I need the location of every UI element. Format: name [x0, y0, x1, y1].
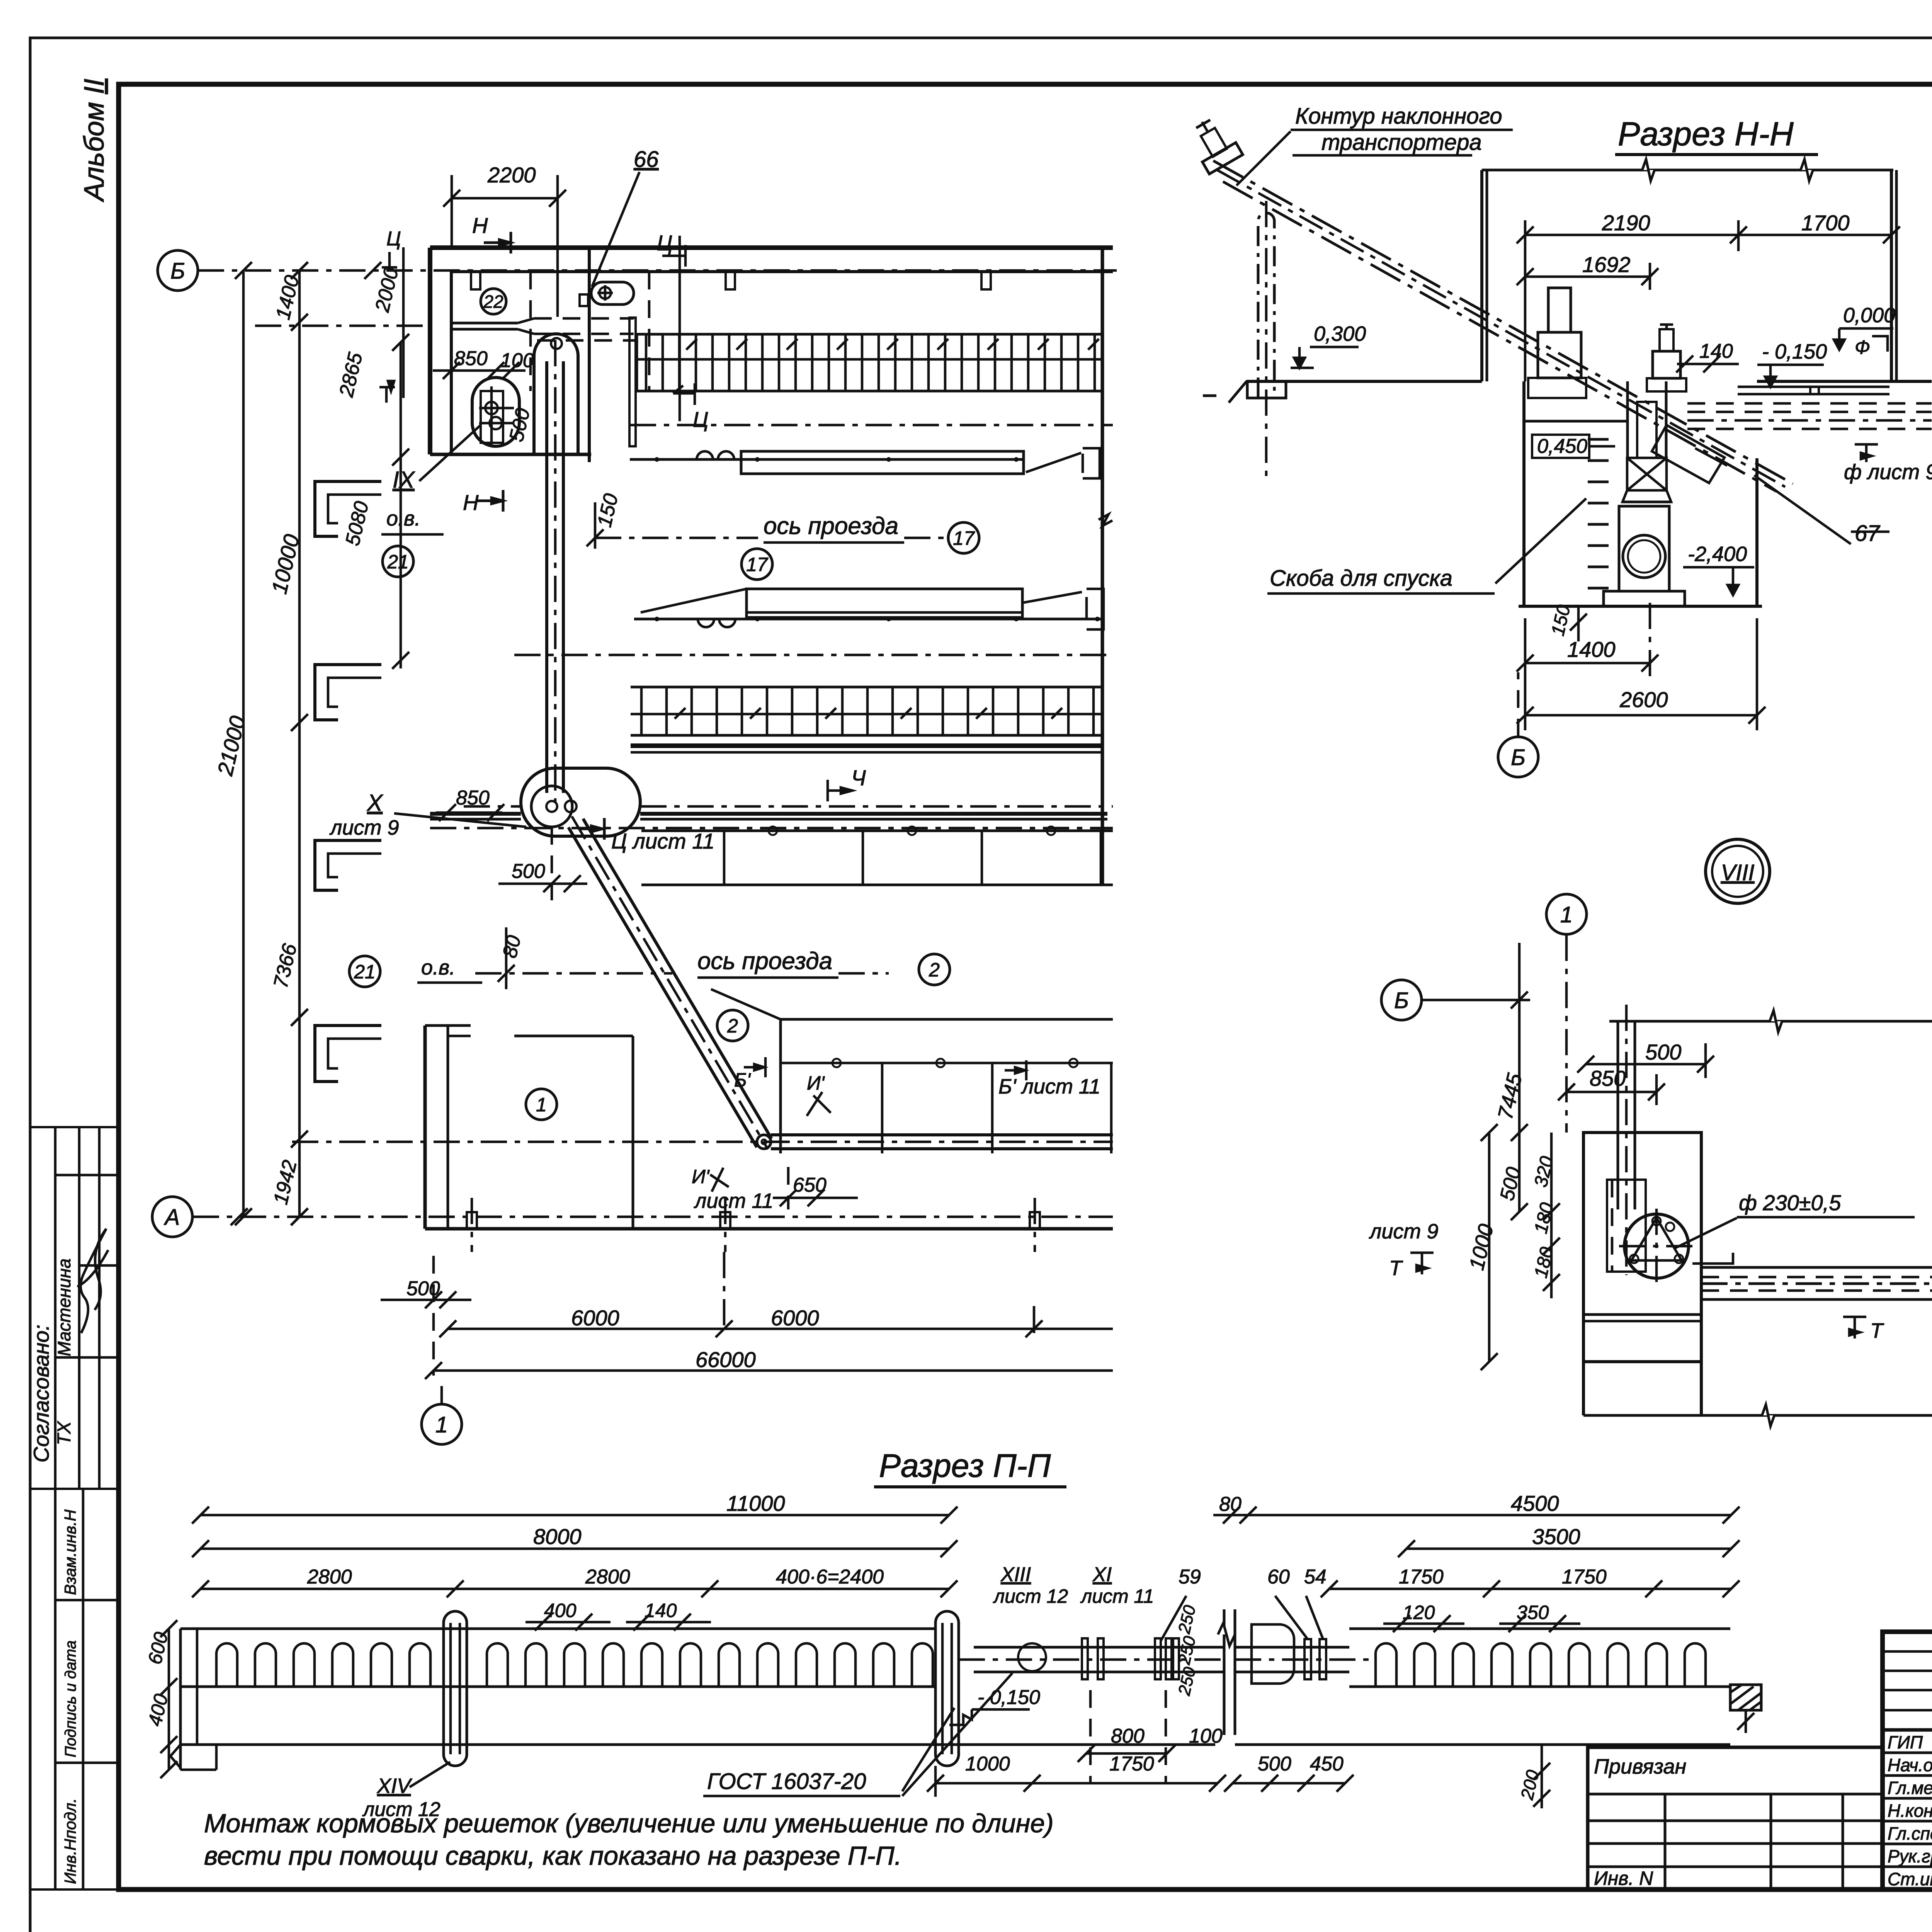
trough A right bracket [1083, 448, 1100, 478]
svg-text:Б: Б [1394, 988, 1409, 1013]
svg-text:67: 67 [1855, 521, 1881, 546]
left dimension chains [242, 270, 245, 1217]
machine room walls [428, 248, 432, 454]
svg-text:Ц: Ц [386, 228, 401, 250]
approval stamp block upper [30, 1127, 119, 1489]
svg-text:И': И' [807, 1072, 825, 1094]
Г brackets on left [315, 481, 381, 536]
svg-text:XI: XI [1092, 1563, 1112, 1586]
svg-text:Контур наклонного: Контур наклонного [1295, 104, 1502, 129]
svg-text:Мастенина: Мастенина [54, 1259, 74, 1356]
svg-text:о.в.: о.в. [386, 507, 420, 530]
axis Б circle VIII [1381, 980, 1422, 1020]
feeding axis 2 dash-dot [514, 654, 1113, 656]
svg-text:140: 140 [645, 1600, 677, 1621]
title block frame [1883, 1632, 1932, 1889]
svg-text:Ц: Ц [693, 407, 709, 432]
ось проезда 2 [475, 972, 672, 975]
svg-text:Б: Б [1511, 745, 1526, 770]
svg-text:450: 450 [1310, 1753, 1344, 1775]
column posts on bottom edge [467, 1212, 477, 1229]
trough A front line with bumps [630, 458, 1024, 461]
svg-text:1: 1 [1560, 902, 1573, 927]
svg-text:17: 17 [953, 527, 975, 549]
feed channel dashed band [1687, 402, 1932, 405]
axis 1 circle VIII [1546, 894, 1587, 934]
plan: right cut edge [1101, 248, 1104, 885]
trough B right bracket [1087, 589, 1104, 629]
drive station capsule [521, 768, 640, 836]
D fitting [1252, 1624, 1294, 1684]
svg-text:400·6=2400: 400·6=2400 [776, 1566, 884, 1588]
dashed verticals mid dims [1089, 1690, 1092, 1783]
inclined conveyor lines dash-dot contour [1223, 182, 1777, 492]
svg-text:Гл.мех.: Гл.мех. [1888, 1778, 1932, 1798]
svg-text:850: 850 [454, 347, 488, 370]
discharge chute [1652, 425, 1725, 483]
svg-text:IX: IX [393, 467, 415, 493]
wall top line with break [1609, 1020, 1932, 1023]
svg-text:6000: 6000 [771, 1306, 819, 1330]
support post capsule dash-dot [1258, 213, 1274, 398]
drive pulley circles [531, 786, 572, 827]
svg-text:500: 500 [1258, 1753, 1291, 1775]
svg-text:А: А [164, 1205, 180, 1230]
svg-text:1692: 1692 [1582, 252, 1631, 277]
svg-text:Ц лист 11: Ц лист 11 [611, 829, 714, 853]
svg-text:вести при помощи сварки, как п: вести при помощи сварки, как показано на… [204, 1841, 902, 1871]
svg-text:0,300: 0,300 [1314, 322, 1366, 345]
capsule XIV on band [444, 1611, 467, 1766]
grate band B [631, 686, 1102, 689]
svg-text:транспортера: транспортера [1321, 130, 1482, 155]
svg-text:лист 11: лист 11 [1080, 1585, 1154, 1607]
svg-text:ось проезда: ось проезда [697, 948, 832, 975]
right flanges [1304, 1639, 1311, 1679]
inclined conveyor channel vertical run [545, 361, 548, 793]
svg-text:Б': Б' [734, 1069, 751, 1091]
svg-text:500: 500 [1645, 1040, 1681, 1064]
inclined conveyor diagonal run [565, 812, 775, 1154]
axis circle 1 bottom [422, 1404, 462, 1444]
svg-text:1750: 1750 [1109, 1753, 1154, 1775]
elevator boot in pit [1637, 402, 1656, 458]
svg-text:850: 850 [456, 787, 490, 809]
floor right of pit [1757, 380, 1932, 383]
circle 1 room [526, 1089, 557, 1120]
conveyor head capsule [534, 334, 578, 456]
flange circle with bolts [1624, 1214, 1689, 1278]
staff names [1888, 1732, 1932, 1889]
svg-text:2800: 2800 [585, 1566, 630, 1588]
svg-text:о.в.: о.в. [421, 956, 455, 979]
svg-text:Н.контр.: Н.контр. [1888, 1801, 1932, 1821]
svg-text:ГИП: ГИП [1888, 1732, 1923, 1752]
svg-text:XIV: XIV [376, 1774, 413, 1798]
partition wall end rect [629, 318, 636, 446]
band A left edge [636, 334, 638, 391]
recessed floor -0,150 [1738, 386, 1889, 388]
capsule XIII on band [935, 1611, 959, 1766]
plan: building top wall [430, 245, 1113, 250]
motor on floor [1538, 332, 1581, 378]
grate band A top line [637, 333, 1104, 336]
Ц cut line left through machine room [402, 247, 405, 398]
svg-text:лист 9: лист 9 [329, 816, 399, 839]
svg-text:1000: 1000 [965, 1753, 1010, 1775]
circle 22 [481, 289, 506, 314]
grate band A bottom line [637, 390, 1104, 393]
svg-text:Ц: Ц [657, 231, 673, 255]
svg-text:Инв. N: Инв. N [1594, 1867, 1653, 1889]
svg-text:2600: 2600 [1619, 687, 1668, 712]
svg-text:2: 2 [929, 959, 940, 981]
svg-text:XIII: XIII [1000, 1563, 1031, 1586]
circle 2 a [919, 954, 950, 985]
feed pipe line at 843 [255, 325, 430, 327]
wall rectangle VIII [1583, 1133, 1701, 1362]
svg-text:лист 11: лист 11 [694, 1189, 774, 1213]
ось проезда 1 [595, 537, 758, 539]
attachment box Привязан [1588, 1747, 1883, 1889]
svg-text:Скоба для спуска: Скоба для спуска [1270, 566, 1452, 591]
svg-text:Ч: Ч [851, 765, 866, 790]
svg-text:21: 21 [354, 961, 376, 983]
axis through station [464, 805, 521, 808]
rooms lower left walls [423, 1026, 427, 1229]
circle 17 b [742, 549, 772, 580]
svg-text:ось проезда: ось проезда [764, 513, 898, 539]
svg-text:Подпись и дата: Подпись и дата [62, 1640, 79, 1757]
circle 2 b [717, 1010, 748, 1041]
band A inner line [637, 358, 1104, 361]
approval stamp block lower [30, 1489, 119, 1889]
svg-text:21: 21 [387, 551, 409, 573]
hatched stub right end [1730, 1685, 1761, 1710]
svg-text:Н: Н [463, 490, 479, 515]
circle 21 lower [349, 956, 380, 987]
axis Б circle HH [1498, 737, 1538, 777]
svg-text:- 0,150: - 0,150 [1762, 340, 1827, 363]
signature [77, 1229, 108, 1333]
svg-text:1: 1 [536, 1094, 547, 1116]
svg-text:800: 800 [1111, 1725, 1145, 1747]
svg-text:80: 80 [1219, 1493, 1242, 1515]
svg-text:1750: 1750 [1399, 1566, 1444, 1588]
svg-text:22: 22 [483, 292, 503, 312]
ladder rungs [1588, 438, 1609, 441]
trough row D [781, 1018, 1113, 1021]
svg-text:лист 12: лист 12 [993, 1585, 1068, 1607]
pit right wall [1755, 458, 1759, 606]
right joint section [1235, 1646, 1349, 1649]
svg-text:54: 54 [1304, 1566, 1327, 1588]
svg-text:Т: Т [1870, 1319, 1884, 1342]
oval unit top [591, 282, 634, 304]
svg-text:VIII: VIII [1721, 860, 1754, 885]
svg-text:1750: 1750 [1562, 1566, 1607, 1588]
svg-text:Нач.отд.: Нач.отд. [1888, 1755, 1932, 1775]
circle 21 upper [383, 546, 413, 577]
svg-text:Инв.Нподл.: Инв.Нподл. [61, 1798, 79, 1884]
0,450 boxed level [1532, 435, 1589, 458]
svg-text:Б: Б [170, 259, 185, 284]
floor line left [1247, 380, 1482, 383]
svg-text:2190: 2190 [1602, 211, 1650, 235]
axis Б circle [158, 250, 198, 291]
Ц лист 11 mark [580, 818, 604, 840]
svg-text:ф лист 9: ф лист 9 [1844, 460, 1932, 484]
svg-text:X: X [366, 790, 383, 816]
svg-text:-2,400: -2,400 [1688, 543, 1747, 566]
svg-text:Гл.спец.: Гл.спец. [1888, 1823, 1932, 1844]
svg-text:1700: 1700 [1801, 211, 1850, 235]
stray mark right of cut [1203, 395, 1216, 397]
wall bottom line VIII [1583, 1414, 1932, 1417]
grate band lines PP [180, 1628, 935, 1630]
gap walls 80 [1223, 1609, 1226, 1735]
svg-text:1: 1 [435, 1412, 448, 1437]
building bottom edge [425, 1227, 1113, 1231]
flange pairs on joint [1082, 1638, 1088, 1679]
svg-text:500: 500 [406, 1277, 440, 1300]
pit bottom [1519, 605, 1762, 608]
svg-text:Ст.инж.: Ст.инж. [1888, 1869, 1932, 1889]
svg-text:Ф: Ф [1855, 337, 1870, 358]
svg-text:Монтаж кормовых решеток (увели: Монтаж кормовых решеток (увеличение или … [204, 1809, 1054, 1838]
dash line 881 [537, 339, 637, 342]
elbow circle [757, 1135, 771, 1149]
svg-text:120: 120 [1403, 1602, 1435, 1623]
svg-text:Привязан: Привязан [1594, 1755, 1686, 1778]
svg-text:850: 850 [1590, 1066, 1626, 1090]
svg-text:Согласовано:: Согласовано: [29, 1325, 53, 1463]
svg-text:Н: Н [472, 213, 488, 238]
mark Б' left [744, 1057, 765, 1077]
grate band A slashes [686, 339, 697, 350]
trough A rectangle [741, 451, 1024, 474]
small step right of circle [1692, 1253, 1733, 1264]
svg-text:2800: 2800 [307, 1566, 352, 1588]
channel to right [1701, 1266, 1932, 1269]
grate posts right section [1376, 1643, 1396, 1687]
svg-text:500: 500 [512, 860, 545, 883]
band B inner line [631, 713, 1102, 716]
svg-text:Б' лист 11: Б' лист 11 [998, 1075, 1100, 1098]
svg-text:Т: Т [1389, 1257, 1403, 1280]
Ц section cut lower mark [673, 383, 695, 405]
detail VIII label circle [1706, 839, 1770, 903]
svg-text:Разрез П-П: Разрез П-П [879, 1447, 1051, 1484]
svg-text:ТХ: ТХ [54, 1421, 75, 1445]
Ц section cut upper [679, 236, 681, 421]
sleeve in wall [1607, 1180, 1646, 1272]
feeding axis 1 dash-dot [630, 424, 1113, 427]
svg-text:59: 59 [1179, 1566, 1201, 1588]
svg-text:Рук.гр.: Рук.гр. [1888, 1846, 1932, 1866]
unit IX capsule in plan [472, 378, 519, 446]
elevator shaft walls [1626, 381, 1629, 460]
trough row C [641, 830, 1113, 832]
building left wall [1480, 170, 1483, 381]
pit walls [1522, 381, 1526, 606]
mark Б' лист 11 right [1005, 1060, 1026, 1080]
svg-text:0,000: 0,000 [1843, 304, 1895, 327]
svg-text:60: 60 [1267, 1566, 1290, 1588]
svg-text:Разрез Н-Н: Разрез Н-Н [1618, 116, 1794, 153]
Т mark right [1854, 1317, 1856, 1338]
small motor 2 [1653, 351, 1680, 378]
labels 60 54 leaders [1275, 1596, 1308, 1639]
ceiling line with breaks [1482, 169, 1893, 172]
svg-text:0,450: 0,450 [1537, 435, 1587, 457]
circle 17 a [948, 522, 979, 553]
conveyor drive head top [1185, 112, 1243, 174]
svg-text:ф 230±0,5: ф 230±0,5 [1739, 1190, 1841, 1215]
svg-text:Взам.инв.Н: Взам.инв.Н [61, 1509, 79, 1595]
svg-text:11000: 11000 [726, 1491, 785, 1515]
machine room dashed partitions [529, 272, 532, 391]
svg-text:2: 2 [727, 1015, 738, 1037]
joint circle XI [1018, 1643, 1046, 1671]
svg-text:8000: 8000 [533, 1524, 582, 1549]
svg-text:- 0,150: - 0,150 [978, 1686, 1040, 1709]
axis dash-dot 2143 [430, 827, 1113, 830]
grate band A ticks [645, 334, 648, 391]
svg-text:ГОСТ 16037-20: ГОСТ 16037-20 [707, 1769, 866, 1794]
lower building edge double line [430, 812, 521, 816]
label 59 leader [1161, 1596, 1186, 1640]
svg-text:3500: 3500 [1532, 1524, 1580, 1549]
band B bottom thick line [631, 743, 1102, 748]
central joint pipe [974, 1646, 1224, 1649]
svg-text:1400: 1400 [1567, 637, 1616, 662]
svg-text:66: 66 [634, 147, 659, 172]
left band bottom step [180, 1769, 216, 1771]
axis Б line [198, 269, 1117, 272]
pit ledge -0,450 [1524, 420, 1628, 423]
svg-text:66000: 66000 [696, 1347, 756, 1372]
axis А [193, 1216, 1113, 1218]
svg-text:Альбом II: Альбом II [79, 79, 110, 202]
grate posts left section [216, 1643, 237, 1687]
svg-text:4500: 4500 [1511, 1491, 1559, 1515]
riser pipe VIII [1617, 1021, 1619, 1209]
grate band left edge [179, 1629, 182, 1770]
small wall posts [471, 272, 480, 289]
trough B rectangle [747, 589, 1022, 617]
svg-text:100: 100 [1189, 1725, 1223, 1747]
conveyor horizontal run lower [771, 1133, 1113, 1136]
svg-text:6000: 6000 [571, 1306, 619, 1330]
svg-text:лист 9: лист 9 [1369, 1220, 1439, 1243]
row D top-left leader [711, 989, 781, 1019]
line with cup bumps [634, 618, 1102, 621]
svg-text:И': И' [692, 1166, 710, 1187]
svg-text:2200: 2200 [487, 163, 536, 187]
svg-text:17: 17 [746, 554, 769, 575]
building right wall [1890, 170, 1893, 381]
svg-text:100: 100 [500, 349, 534, 372]
